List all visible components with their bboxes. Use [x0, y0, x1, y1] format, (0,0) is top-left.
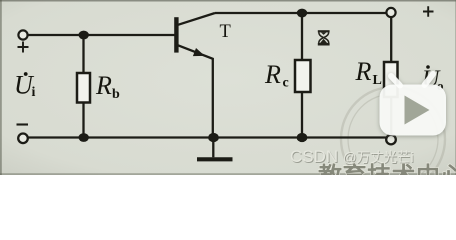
wire ground stem	[212, 138, 214, 158]
node base-Rb junction	[79, 31, 89, 40]
plus sign input	[18, 42, 29, 53]
input terminal + (top-left)	[18, 30, 27, 39]
wire base rail	[28, 34, 175, 36]
svg-text:R: R	[355, 57, 372, 86]
resistor RL	[384, 62, 398, 97]
edge vignette left	[0, 0, 2, 175]
edge vignette bottom	[0, 173, 456, 175]
play triangle	[405, 96, 430, 125]
stamp watermark rings	[341, 87, 445, 191]
wire collector top rail	[215, 12, 387, 14]
svg-text:T: T	[220, 22, 231, 42]
play button (bilibili tv icon)	[380, 74, 447, 136]
resistor Rb	[77, 73, 90, 103]
wire RL branch	[390, 17, 392, 135]
node Rc-top junction	[297, 9, 307, 18]
transistor T emitter stroke	[178, 45, 213, 137]
svg-text:R: R	[264, 60, 281, 89]
node Rb-bottom junction	[79, 133, 89, 142]
ground	[197, 157, 233, 161]
svg-text:i: i	[32, 85, 36, 100]
transistor T emitter arrow	[193, 48, 205, 56]
node emitter-bottom junction	[208, 133, 219, 142]
output terminal + (top-right)	[386, 8, 395, 17]
resistor Rc	[295, 60, 311, 92]
svg-text:教育技术中心: 教育技术中心	[318, 162, 456, 175]
svg-text:b: b	[112, 87, 120, 102]
wire bottom rail	[28, 136, 386, 138]
node Rc-bottom junction	[297, 133, 308, 142]
watermark CSDN@ text	[290, 147, 414, 167]
transistor T collector stroke	[178, 13, 215, 25]
output terminal (bottom-right)	[386, 135, 396, 145]
input terminal - (bottom-left)	[18, 134, 28, 144]
transistor T base bar	[174, 17, 178, 52]
wire Rc branch	[301, 13, 303, 138]
edge vignette right	[455, 0, 456, 175]
wire Rb branch	[82, 35, 84, 138]
edge vignette top	[0, 0, 456, 2]
plus sign output	[423, 6, 434, 16]
hourglass wait cursor	[318, 31, 330, 44]
svg-text:c: c	[283, 76, 289, 91]
svg-text:L: L	[373, 73, 382, 88]
svg-text:R: R	[95, 71, 112, 100]
minus sign input	[17, 123, 29, 125]
